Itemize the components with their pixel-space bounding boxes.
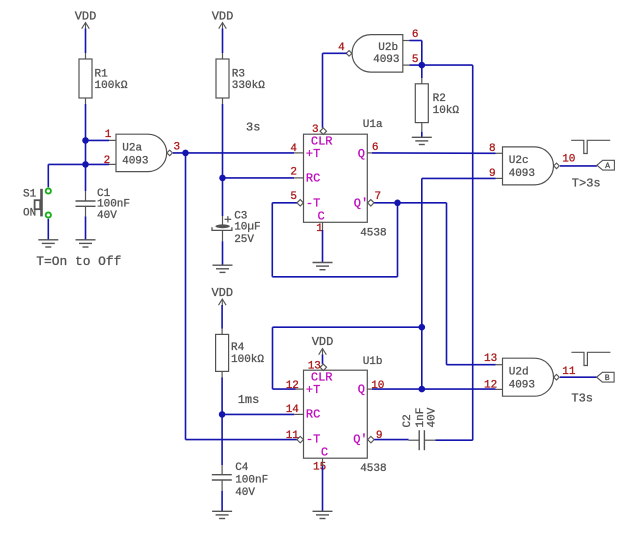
svg-text:U2b: U2b (378, 42, 398, 54)
svg-text:RC: RC (306, 172, 320, 186)
svg-text:Q: Q (358, 147, 365, 161)
svg-text:Q': Q' (353, 433, 367, 447)
svg-text:S1: S1 (23, 189, 37, 201)
svg-text:Q: Q (358, 383, 365, 397)
svg-text:VDD: VDD (312, 335, 334, 349)
svg-text:C2: C2 (402, 414, 414, 427)
svg-text:12: 12 (484, 380, 497, 392)
svg-text:100nF: 100nF (97, 198, 130, 210)
svg-text:10µF: 10µF (234, 221, 260, 233)
svg-text:7: 7 (375, 191, 382, 203)
svg-text:U2c: U2c (509, 155, 529, 167)
svg-text:8: 8 (489, 143, 496, 155)
svg-text:4: 4 (290, 143, 297, 155)
svg-text:U1a: U1a (363, 119, 383, 131)
svg-text:1: 1 (105, 129, 112, 141)
svg-text:12: 12 (286, 380, 299, 392)
svg-text:T>3s: T>3s (572, 177, 601, 191)
svg-text:ON: ON (23, 207, 36, 219)
svg-text:T=On to Off: T=On to Off (36, 254, 121, 269)
svg-text:C: C (321, 445, 328, 459)
svg-text:13: 13 (484, 353, 497, 365)
svg-text:11: 11 (562, 366, 576, 378)
svg-text:R2: R2 (433, 93, 446, 105)
svg-text:4538: 4538 (360, 228, 386, 240)
svg-text:100kΩ: 100kΩ (95, 80, 128, 92)
svg-text:VDD: VDD (212, 9, 234, 23)
svg-text:6: 6 (412, 29, 419, 41)
svg-text:C: C (318, 210, 325, 224)
svg-text:100nF: 100nF (235, 475, 268, 487)
svg-text:5: 5 (412, 54, 419, 66)
svg-text:10kΩ: 10kΩ (433, 105, 460, 117)
svg-text:25V: 25V (234, 234, 254, 246)
svg-text:3: 3 (312, 124, 319, 136)
svg-text:100kΩ: 100kΩ (231, 354, 264, 366)
svg-text:3: 3 (174, 142, 181, 154)
svg-text:4093: 4093 (373, 54, 399, 66)
svg-text:RC: RC (306, 408, 320, 422)
svg-text:A: A (605, 162, 610, 171)
svg-text:R3: R3 (232, 68, 245, 80)
svg-text:1nF: 1nF (415, 408, 427, 428)
svg-text:14: 14 (286, 404, 300, 416)
svg-text:2: 2 (104, 155, 111, 167)
svg-text:U1b: U1b (363, 356, 383, 368)
svg-text:4093: 4093 (122, 155, 148, 167)
svg-text:VDD: VDD (211, 286, 233, 300)
svg-text:C4: C4 (235, 462, 249, 474)
svg-text:4538: 4538 (360, 463, 386, 475)
svg-text:R4: R4 (231, 342, 245, 354)
svg-text:1ms: 1ms (238, 393, 260, 407)
svg-text:40V: 40V (427, 407, 439, 427)
svg-text:13: 13 (308, 361, 321, 373)
svg-text:-T: -T (306, 197, 320, 211)
svg-text:11: 11 (286, 430, 300, 442)
svg-text:2: 2 (290, 166, 297, 178)
svg-text:330kΩ: 330kΩ (232, 80, 265, 92)
svg-text:U2d: U2d (509, 366, 529, 378)
svg-text:T3s: T3s (571, 392, 593, 406)
svg-text:+T: +T (306, 383, 320, 397)
svg-text:40V: 40V (235, 487, 255, 499)
svg-text:B: B (605, 374, 610, 383)
svg-text:3s: 3s (246, 121, 260, 135)
svg-text:VDD: VDD (75, 9, 97, 23)
svg-text:4093: 4093 (509, 168, 535, 180)
svg-text:40V: 40V (97, 210, 117, 222)
svg-text:4: 4 (338, 42, 345, 54)
svg-text:+T: +T (306, 147, 320, 161)
svg-text:U2a: U2a (122, 142, 142, 154)
svg-text:6: 6 (372, 142, 379, 154)
svg-text:10: 10 (371, 380, 384, 392)
svg-text:4093: 4093 (509, 379, 535, 391)
svg-text:-T: -T (306, 433, 320, 447)
svg-text:15: 15 (313, 462, 326, 474)
svg-text:5: 5 (290, 191, 297, 203)
svg-text:R1: R1 (95, 68, 109, 80)
svg-text:10: 10 (562, 154, 575, 166)
svg-text:Q': Q' (354, 197, 368, 211)
